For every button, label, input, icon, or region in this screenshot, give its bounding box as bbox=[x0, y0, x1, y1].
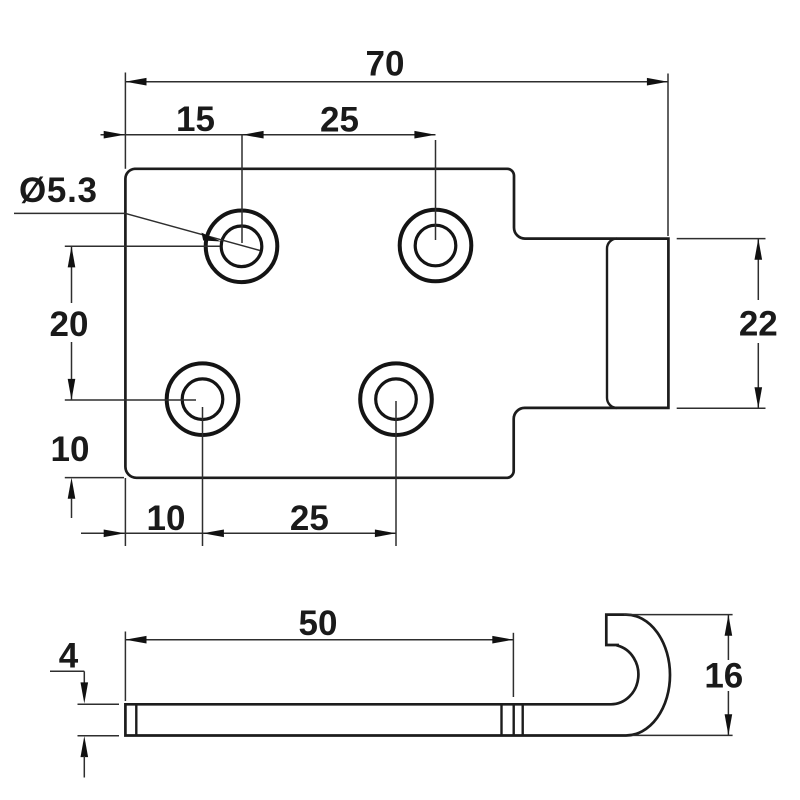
extension line hole row1 left bbox=[65, 245, 220, 247]
svg-text:25: 25 bbox=[290, 499, 329, 538]
dim 70 left extension bbox=[124, 73, 126, 169]
extension line tab bottom right bbox=[677, 407, 766, 409]
dim 16 up arrow bbox=[725, 615, 733, 636]
dim 22 line lower segment bbox=[757, 343, 759, 408]
dim 25 right arrow bbox=[414, 131, 435, 139]
hole LR outer bbox=[360, 363, 432, 435]
extension line plate bottom left bbox=[65, 477, 124, 479]
dim 4 lower tail bbox=[83, 756, 85, 778]
svg-text:20: 20 bbox=[50, 305, 89, 344]
leader line bbox=[14, 213, 260, 250]
dim 10 outside arrow below bottom edge bbox=[68, 478, 76, 499]
side view bend line a bbox=[500, 704, 502, 735]
dim 50 left arrow bbox=[125, 636, 146, 644]
fold line (top view) bbox=[607, 239, 617, 408]
side view left end inner line bbox=[135, 704, 137, 735]
svg-text:15: 15 bbox=[176, 100, 215, 139]
svg-text:4: 4 bbox=[59, 637, 79, 676]
side view bend line b bbox=[513, 704, 515, 735]
dim 10/25 shared arrow at bottom hole col1 bbox=[203, 530, 224, 538]
hole UL outer bbox=[206, 211, 278, 283]
dim 70 line bbox=[125, 81, 668, 83]
svg-text:22: 22 bbox=[739, 305, 778, 344]
dim 50 right arrow bbox=[492, 636, 513, 644]
extension line hole col1 top bbox=[241, 134, 243, 243]
extension line bar bottom left bbox=[78, 735, 120, 737]
dim 20 line lower segment bbox=[71, 342, 73, 400]
dim 50 line bbox=[125, 639, 513, 641]
dim 50 right extension bbox=[512, 633, 514, 697]
leader arrowhead bbox=[202, 233, 222, 242]
extension line bar top left bbox=[78, 703, 120, 705]
dim 15/25 line bbox=[101, 134, 436, 136]
dim 20 up arrow bbox=[68, 246, 76, 267]
dim 25 bottom right arrow bbox=[375, 530, 396, 538]
svg-text:16: 16 bbox=[704, 657, 743, 696]
dim 4 shelf line bbox=[50, 670, 84, 672]
hole UR outer bbox=[400, 210, 472, 282]
svg-text:50: 50 bbox=[299, 604, 338, 643]
svg-text:25: 25 bbox=[320, 101, 359, 140]
dim 10 bottom outside arrow bbox=[104, 530, 125, 538]
dim 4 vertical tail upper bbox=[83, 671, 85, 684]
dim 22 up arrow bbox=[755, 239, 763, 260]
dim 22 down arrow bbox=[755, 387, 763, 408]
side view bend line c bbox=[522, 704, 524, 735]
hole LL outer bbox=[167, 363, 239, 435]
dim 16 line lower segment bbox=[727, 691, 729, 735]
dim 20 down arrow bbox=[68, 379, 76, 400]
hole UR inner bbox=[415, 225, 456, 266]
dim 15/25 shared arrow at first hole column bbox=[243, 131, 264, 139]
extension line hook top right bbox=[624, 614, 733, 616]
dim 70 left arrow bbox=[125, 78, 146, 86]
dim 4 down arrow bbox=[81, 682, 89, 703]
svg-text:10: 10 bbox=[147, 499, 186, 538]
extension line plate left lower bbox=[124, 478, 126, 546]
extension line hole col2 top bbox=[435, 140, 437, 240]
dim 20 line upper segment bbox=[71, 246, 73, 303]
svg-text:70: 70 bbox=[366, 44, 405, 83]
extension line tab top right bbox=[677, 238, 766, 240]
extension line hook bottom right bbox=[633, 734, 733, 736]
dim 70 right arrow bbox=[647, 78, 668, 86]
hole UL inner bbox=[221, 226, 262, 267]
dim 16 down arrow bbox=[725, 714, 733, 735]
extension line bottom hole col2 bbox=[395, 401, 397, 546]
extension line bottom hole col1 bbox=[202, 407, 204, 546]
hole LR inner bbox=[376, 379, 417, 420]
dim 15 left outside arrow bbox=[104, 131, 125, 139]
side view bar and hook outline bbox=[125, 615, 670, 736]
dim 10 arrow tail bbox=[71, 498, 73, 518]
dim 70 right extension bbox=[667, 74, 669, 237]
extension line hole row2 left bbox=[65, 399, 196, 401]
dim 22 line upper segment bbox=[757, 239, 759, 300]
svg-text:Ø5.3: Ø5.3 bbox=[19, 171, 98, 210]
dim 4 up arrow below bbox=[81, 736, 89, 757]
hole LL inner bbox=[182, 379, 223, 420]
dim 16 line upper segment bbox=[727, 615, 729, 660]
plate outline (top view) bbox=[125, 169, 668, 478]
dim 50 left extension bbox=[124, 632, 126, 702]
svg-text:10: 10 bbox=[51, 430, 90, 469]
dim 10/25 bottom line bbox=[81, 532, 396, 534]
